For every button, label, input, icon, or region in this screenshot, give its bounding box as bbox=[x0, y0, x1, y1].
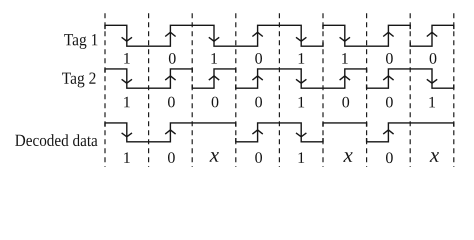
svg-text:1: 1 bbox=[123, 94, 131, 111]
Tag 1 down arrowhead bit 6 bbox=[340, 37, 350, 41]
Tag 1 up arrowhead bit 7 bbox=[383, 32, 393, 36]
svg-text:0: 0 bbox=[167, 94, 175, 111]
Tag 2 up arrowhead bit 7 bbox=[383, 76, 393, 80]
Tag 1 up arrowhead bit 2 bbox=[165, 32, 175, 36]
bit boundary dashed line 2 bbox=[148, 13, 150, 167]
bit boundary dashed line 3 bbox=[191, 13, 193, 167]
svg-text:1: 1 bbox=[297, 51, 305, 68]
svg-text:0: 0 bbox=[385, 150, 393, 167]
svg-text:0: 0 bbox=[385, 51, 393, 68]
svg-text:Decoded data: Decoded data bbox=[15, 131, 98, 150]
Tag 2 down arrowhead bit 5 bbox=[296, 79, 306, 83]
svg-text:1: 1 bbox=[297, 94, 305, 111]
Tag 2 waveform bbox=[105, 69, 454, 88]
svg-text:x: x bbox=[209, 143, 220, 167]
Tag 1 down arrowhead bit 5 bbox=[296, 37, 306, 41]
bit boundary dashed line 1 bbox=[104, 13, 106, 167]
Tag 2 up arrowhead bit 3 bbox=[209, 76, 219, 80]
svg-text:1: 1 bbox=[123, 51, 131, 68]
svg-text:0: 0 bbox=[385, 94, 393, 111]
Tag 2 up arrowhead bit 4 bbox=[252, 76, 262, 80]
svg-text:0: 0 bbox=[429, 51, 437, 68]
svg-text:0: 0 bbox=[211, 94, 219, 111]
svg-text:x: x bbox=[429, 143, 440, 167]
bit boundary dashed line 8 bbox=[409, 13, 411, 167]
Tag 1 up arrowhead bit 4 bbox=[252, 32, 262, 36]
Tag 2 down arrowhead bit 1 bbox=[122, 79, 132, 83]
bit boundary dashed line 6 bbox=[322, 13, 324, 167]
Decoded data down arrowhead bit 1 bbox=[122, 133, 132, 137]
Tag 1 up arrowhead bit 8 bbox=[427, 32, 437, 36]
Tag 2 down arrowhead bit 8 bbox=[427, 79, 437, 83]
svg-text:0: 0 bbox=[342, 94, 350, 111]
Tag 2 up arrowhead bit 2 bbox=[165, 76, 175, 80]
bit boundary dashed line 5 bbox=[278, 13, 280, 167]
Decoded data down arrowhead bit 5 bbox=[296, 133, 306, 137]
svg-text:0: 0 bbox=[168, 51, 176, 68]
svg-text:x: x bbox=[343, 143, 354, 167]
Tag 1 down arrowhead bit 1 bbox=[122, 37, 132, 41]
svg-text:0: 0 bbox=[167, 150, 175, 167]
Decoded data up arrowhead bit 2 bbox=[165, 130, 175, 134]
Tag 1 waveform bbox=[105, 25, 454, 46]
bit boundary dashed line 4 bbox=[235, 13, 237, 167]
svg-text:0: 0 bbox=[255, 94, 263, 111]
bit boundary dashed line 9 bbox=[453, 13, 455, 167]
svg-text:1: 1 bbox=[123, 150, 131, 167]
Decoded data up arrowhead bit 7 bbox=[383, 130, 393, 134]
Decoded data waveform bbox=[105, 123, 454, 142]
svg-text:1: 1 bbox=[428, 94, 436, 111]
Tag 2 up arrowhead bit 6 bbox=[340, 76, 350, 80]
svg-text:Tag 2: Tag 2 bbox=[62, 69, 97, 88]
svg-text:1: 1 bbox=[210, 51, 218, 68]
Decoded data up arrowhead bit 4 bbox=[252, 130, 262, 134]
svg-text:1: 1 bbox=[341, 51, 349, 68]
svg-text:1: 1 bbox=[297, 150, 305, 167]
svg-text:0: 0 bbox=[255, 150, 263, 167]
bit boundary dashed line 7 bbox=[366, 13, 368, 167]
Tag 1 down arrowhead bit 3 bbox=[209, 37, 219, 41]
svg-text:Tag 1: Tag 1 bbox=[64, 30, 99, 49]
svg-text:0: 0 bbox=[255, 51, 263, 68]
